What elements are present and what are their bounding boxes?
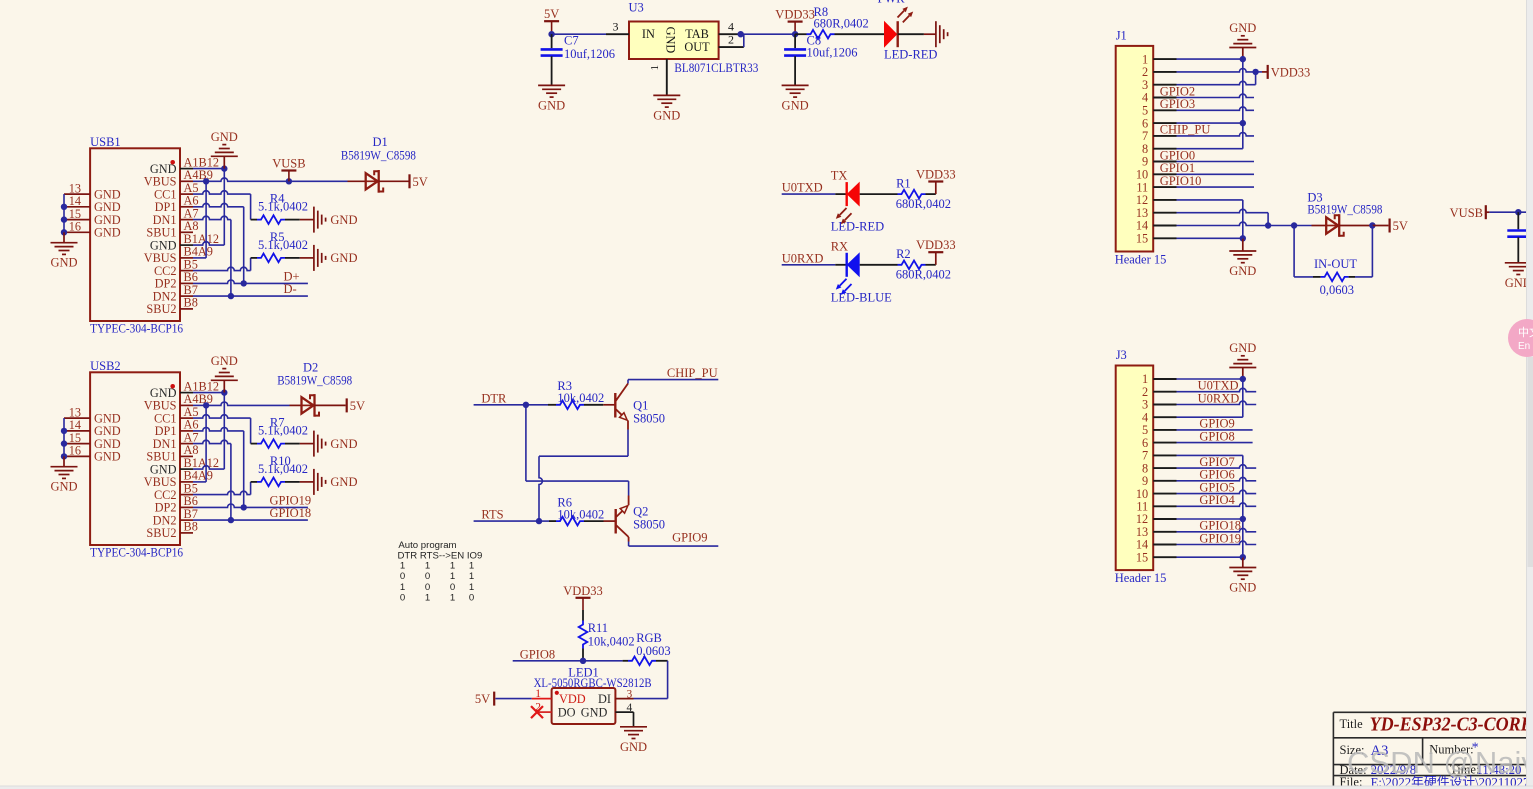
svg-text:0,0603: 0,0603 bbox=[1320, 283, 1354, 297]
svg-text:10uf,1206: 10uf,1206 bbox=[807, 46, 858, 60]
wire J3 pin9 GPIO6 bbox=[1177, 468, 1257, 482]
resistor R11 10k bbox=[579, 610, 635, 661]
svg-text:J3: J3 bbox=[1116, 348, 1127, 362]
diode D2 B5819W_C8598 bbox=[277, 360, 352, 416]
svg-text:5V: 5V bbox=[413, 175, 428, 189]
power port VUSB right bbox=[1450, 205, 1490, 220]
wire J3 pin4 bbox=[1177, 416, 1243, 418]
wire PWR LED to ground bbox=[898, 33, 936, 35]
svg-text:1: 1 bbox=[450, 592, 455, 603]
svg-text:GPIO19: GPIO19 bbox=[1199, 531, 1241, 545]
capacitor at VUSB bbox=[1507, 212, 1529, 263]
wire USB2 B1A12 gnd bbox=[193, 466, 224, 469]
svg-text:C7: C7 bbox=[564, 33, 579, 47]
label Header 15 J1 bbox=[1115, 252, 1167, 266]
svg-text:4: 4 bbox=[627, 702, 633, 714]
svg-text:IN-OUT: IN-OUT bbox=[1314, 257, 1357, 271]
svg-text:GND: GND bbox=[50, 256, 77, 270]
svg-text:BL8071CLBTR33: BL8071CLBTR33 bbox=[674, 61, 758, 75]
pins 1-15 J1 bbox=[1136, 52, 1177, 245]
emission arrows TX bbox=[836, 208, 852, 224]
svg-text:GND: GND bbox=[653, 108, 680, 122]
capacitor C8 bbox=[784, 33, 857, 85]
net label GPIO8 bbox=[520, 647, 555, 661]
diode D1 B5819W_C8598 bbox=[341, 135, 416, 193]
svg-text:Q1: Q1 bbox=[633, 398, 648, 412]
resistor R1 680R bbox=[860, 177, 951, 211]
ground left of USB1 bbox=[50, 243, 77, 270]
svg-text:0: 0 bbox=[450, 582, 455, 593]
svg-text:B5819W_C8598: B5819W_C8598 bbox=[1307, 202, 1382, 216]
wire DN2 USB2 / node GPIO18 bbox=[193, 506, 311, 523]
svg-text:15: 15 bbox=[1136, 232, 1148, 246]
wire J1 pin4 GPIO2 bbox=[1160, 84, 1254, 98]
svg-text:GPIO3: GPIO3 bbox=[1160, 97, 1195, 111]
wire DP2 USB1 / node D+ bbox=[193, 269, 308, 286]
svg-text:Header 15: Header 15 bbox=[1115, 252, 1167, 266]
wire 5V to LED1 bbox=[495, 698, 531, 700]
wire J3 gnd vertical top bbox=[1242, 379, 1244, 417]
svg-text:5V: 5V bbox=[350, 399, 365, 413]
svg-text:GND: GND bbox=[581, 705, 608, 719]
scrollbar bottom bbox=[0, 786, 1533, 789]
diode D3 B5819W_C8598 bbox=[1307, 191, 1382, 237]
note auto-program table bbox=[398, 540, 483, 603]
power port 5V at D1 bbox=[410, 174, 428, 189]
svg-text:S8050: S8050 bbox=[633, 517, 665, 531]
svg-text:GPIO18: GPIO18 bbox=[270, 506, 312, 520]
svg-text:GND: GND bbox=[330, 213, 357, 227]
junction node U3 output bbox=[738, 31, 744, 37]
ground at R5 bbox=[314, 245, 358, 271]
wire Q2 collector to GPIO9 bbox=[629, 542, 719, 547]
wire VBUS to D1 USB1 bbox=[206, 178, 366, 185]
svg-text:GND: GND bbox=[1229, 341, 1256, 355]
junction gnd top USB2 bbox=[221, 389, 227, 395]
emission arrows RX bbox=[836, 279, 852, 295]
svg-text:VDD33: VDD33 bbox=[1271, 66, 1311, 80]
svg-text:GND: GND bbox=[1229, 581, 1256, 595]
svg-text:1: 1 bbox=[649, 65, 661, 71]
ground left of USB2 bbox=[50, 467, 77, 494]
ground above J3 bbox=[1229, 341, 1256, 379]
wire J1 pin5 GPIO3 bbox=[1160, 97, 1254, 111]
wire CC2 USB2 bbox=[193, 482, 251, 495]
LED1 pin 2 DO no-connect bbox=[531, 701, 552, 718]
svg-text:0: 0 bbox=[425, 582, 430, 593]
svg-text:DTR: DTR bbox=[481, 391, 507, 405]
svg-text:D2: D2 bbox=[303, 360, 318, 374]
pins 1-15 J3 bbox=[1136, 372, 1177, 564]
svg-text:R1: R1 bbox=[896, 177, 911, 191]
svg-text:GND: GND bbox=[330, 251, 357, 265]
wire U0TXD bbox=[782, 193, 847, 195]
header J1 Header 15 bbox=[1116, 28, 1154, 251]
wire USB2 VBUS bbox=[193, 402, 209, 482]
svg-text:0: 0 bbox=[400, 571, 405, 582]
wire J3 pin10 GPIO5 bbox=[1177, 480, 1257, 494]
wire J3 pin8 GPIO7 bbox=[1177, 455, 1257, 469]
LED1 pin 1 VDD bbox=[532, 688, 552, 700]
wire J1 pin3 bbox=[1177, 72, 1256, 85]
power port VDD33 at J1 bbox=[1256, 65, 1311, 80]
svg-text:TX: TX bbox=[831, 169, 848, 183]
pink translate button bbox=[1508, 319, 1533, 357]
svg-text:VDD33: VDD33 bbox=[775, 8, 815, 22]
wire D3 to 5V bbox=[1339, 222, 1388, 228]
svg-text:GND: GND bbox=[1229, 264, 1256, 278]
svg-text:1: 1 bbox=[535, 688, 541, 700]
svg-text:0: 0 bbox=[400, 592, 405, 603]
wire CC1 USB1 bbox=[193, 191, 251, 220]
resistor RGB 0R bbox=[623, 631, 671, 665]
net label RX bbox=[831, 239, 848, 253]
net label CHIP_PU bbox=[667, 366, 718, 380]
svg-text:1: 1 bbox=[450, 571, 455, 582]
header J3 Header 15 bbox=[1116, 348, 1154, 570]
svg-text:VUSB: VUSB bbox=[272, 157, 305, 171]
resistor IN-OUT 0R bbox=[1313, 257, 1357, 297]
pins 13-16 USB2 bbox=[64, 405, 121, 463]
resistor R5 5.1k bbox=[251, 230, 314, 262]
wire DP1 USB2 bbox=[193, 428, 244, 508]
LED PWR red bbox=[884, 7, 937, 62]
svg-text:CSDN @Naivete: CSDN @Naivete bbox=[1347, 745, 1533, 780]
svg-text:5.1k,0402: 5.1k,0402 bbox=[258, 238, 308, 252]
wire gnd vertical USB2 bbox=[223, 393, 225, 470]
svg-text:1: 1 bbox=[425, 560, 430, 571]
wire J1 pin14 to D3 bbox=[1177, 222, 1327, 229]
power port 5V at D3 bbox=[1390, 219, 1408, 234]
wire DN1 USB1 bbox=[193, 216, 231, 296]
wire J1 pin9 GPIO0 bbox=[1160, 148, 1254, 162]
wire DP1 USB1 bbox=[193, 203, 244, 283]
svg-text:YD-ESP32-C3-CORE: YD-ESP32-C3-CORE bbox=[1370, 714, 1533, 736]
ground below LED1 bbox=[620, 727, 647, 754]
svg-text:VDD33: VDD33 bbox=[916, 168, 956, 182]
wire left gnd bus USB2 bbox=[61, 418, 67, 467]
svg-text:10k,0402: 10k,0402 bbox=[557, 391, 604, 405]
ground below VUSB cap bbox=[1505, 263, 1532, 290]
svg-text:1: 1 bbox=[450, 560, 455, 571]
svg-text:1: 1 bbox=[469, 582, 474, 593]
svg-text:TYPEC-304-BCP16: TYPEC-304-BCP16 bbox=[90, 546, 183, 560]
svg-text:J1: J1 bbox=[1116, 28, 1127, 42]
wire VBUS to D2 USB2 bbox=[206, 402, 301, 405]
ground above USB2 bbox=[211, 354, 238, 393]
power port 5V at D2 bbox=[347, 398, 365, 413]
svg-text:GND: GND bbox=[330, 475, 357, 489]
power port VDD33 at R2 bbox=[916, 238, 956, 265]
wire J1 pin1 bbox=[1177, 56, 1247, 62]
ground above J1 bbox=[1229, 21, 1256, 59]
svg-text:5.1k,0402: 5.1k,0402 bbox=[258, 200, 308, 214]
net label PWR bbox=[878, 0, 906, 6]
svg-text:GND: GND bbox=[50, 480, 77, 494]
wire DP2 USB2 / node GPIO19 bbox=[193, 493, 311, 510]
wire J1 pin7 CHIP_PU bbox=[1160, 123, 1254, 137]
net label U0TXD bbox=[782, 181, 823, 195]
wire Q1 emitter to RTS bbox=[539, 430, 628, 522]
date row bbox=[1340, 763, 1522, 777]
svg-text:5V: 5V bbox=[475, 692, 490, 706]
svg-text:0: 0 bbox=[425, 571, 430, 582]
wire J1 pin10 GPIO1 bbox=[1160, 161, 1254, 175]
wire DN1 USB2 bbox=[193, 440, 231, 520]
wire J3 pin14 GPIO19 bbox=[1177, 531, 1257, 545]
svg-text:GND: GND bbox=[538, 98, 565, 112]
ground below J1 bbox=[1229, 251, 1256, 278]
svg-text:GPIO8: GPIO8 bbox=[1199, 429, 1234, 443]
wire pin2 up to pin4 bbox=[743, 34, 745, 47]
title block frame bbox=[1333, 712, 1533, 789]
resistor R3 10k bbox=[548, 379, 615, 409]
wire J1 pin15 bbox=[1177, 237, 1243, 239]
svg-text:1: 1 bbox=[400, 582, 405, 593]
svg-text:XL-5050RGBC-WS2812B: XL-5050RGBC-WS2812B bbox=[534, 676, 652, 690]
svg-text:U0RXD: U0RXD bbox=[782, 251, 824, 265]
svg-text:USB2: USB2 bbox=[90, 359, 121, 373]
svg-text:5.1k,0402: 5.1k,0402 bbox=[258, 424, 308, 438]
svg-text:2: 2 bbox=[728, 33, 734, 47]
LED TX LED-RED bbox=[831, 182, 884, 234]
resistor R4 5.1k bbox=[251, 192, 314, 224]
svg-text:680R,0402: 680R,0402 bbox=[896, 197, 951, 211]
svg-text:SBU2: SBU2 bbox=[146, 302, 176, 316]
svg-text:GND: GND bbox=[782, 98, 809, 112]
svg-text:GND: GND bbox=[94, 226, 121, 240]
wire J3 pin1 bbox=[1177, 376, 1247, 382]
ground at R10 bbox=[314, 469, 358, 495]
transistor Q1 S8050 bbox=[615, 384, 665, 430]
wire J3 pin15 bbox=[1177, 556, 1243, 558]
svg-text:5V: 5V bbox=[1393, 219, 1408, 233]
svg-text:10uf,1206: 10uf,1206 bbox=[564, 47, 615, 61]
wire left gnd bus USB1 bbox=[61, 194, 67, 243]
LED1 pin 4 GND bbox=[615, 702, 633, 727]
svg-text:10k,0402: 10k,0402 bbox=[588, 634, 635, 648]
usb connector USB1 TYPEC-304-BCP16 bbox=[90, 135, 183, 336]
ground right of PWR LED bbox=[936, 21, 948, 47]
wire J3 pin12 bbox=[1177, 518, 1243, 520]
ground at R4 bbox=[314, 207, 358, 233]
wire J1 pin2 VDD33 bbox=[1177, 69, 1259, 76]
svg-text:5V: 5V bbox=[544, 7, 559, 21]
net label DTR bbox=[481, 391, 507, 405]
wire RTS bbox=[474, 518, 549, 524]
power port 5V at LED1 bbox=[475, 692, 494, 707]
wire J3 pin5 GPIO9 bbox=[1177, 417, 1253, 431]
svg-text:680R,0402: 680R,0402 bbox=[814, 16, 869, 30]
junction gnd top USB1 bbox=[221, 165, 227, 171]
svg-text:U0RXD: U0RXD bbox=[1198, 391, 1240, 405]
svg-text:Auto program: Auto program bbox=[398, 540, 456, 551]
power port 5V bbox=[544, 7, 559, 34]
capacitor C7 bbox=[541, 33, 615, 85]
resistor R2 680R bbox=[860, 247, 951, 281]
svg-text:CHIP_PU: CHIP_PU bbox=[667, 366, 718, 380]
svg-text:16: 16 bbox=[69, 444, 81, 458]
resistor R10 5.1k bbox=[251, 454, 314, 486]
wire J3 pin6 GPIO8 bbox=[1177, 429, 1253, 443]
wire USB2 A1B12 gnd bbox=[193, 392, 224, 394]
voltage regulator U3 BL8071CLBTR33 bbox=[629, 1, 759, 76]
watermark CSDN bbox=[1347, 745, 1533, 780]
wire J3 pin2 U0TXD bbox=[1177, 379, 1257, 393]
svg-text:OUT: OUT bbox=[684, 40, 710, 54]
svg-text:GND: GND bbox=[330, 437, 357, 451]
size row bbox=[1340, 741, 1479, 760]
wire USB1 A1B12 gnd bbox=[193, 168, 224, 170]
resistor R6 10k bbox=[549, 495, 616, 525]
net label RTS bbox=[481, 508, 503, 522]
wire DTR to Q2 collector bbox=[526, 405, 629, 496]
wire D2 to 5V bbox=[315, 404, 346, 406]
wire DN2 USB1 / node D- bbox=[193, 282, 308, 299]
wire J1 pin11 GPIO10 bbox=[1160, 174, 1254, 188]
svg-text:中文: 中文 bbox=[1518, 325, 1533, 339]
rgb led LED1 XL-5050RGBC-WS2812B bbox=[534, 665, 652, 724]
wire 5V to U3 pin3 bbox=[552, 33, 606, 35]
power port VDD33 top bbox=[775, 8, 815, 35]
junction node VDD33/C8 bbox=[792, 31, 798, 37]
ground below C8 bbox=[782, 85, 809, 112]
svg-text:S8050: S8050 bbox=[633, 411, 665, 425]
wire CHIP_PU bbox=[628, 380, 718, 384]
svg-text:USB1: USB1 bbox=[90, 135, 121, 149]
wire CC2 USB1 bbox=[193, 258, 251, 271]
wire VUSB right bbox=[1489, 209, 1533, 215]
svg-text:DO: DO bbox=[558, 705, 576, 719]
net label TX bbox=[831, 169, 848, 183]
svg-text:GPIO8: GPIO8 bbox=[520, 647, 555, 661]
pins right side USB2 bbox=[144, 379, 219, 540]
svg-text:B8: B8 bbox=[184, 520, 198, 534]
wire USB1 B1A12 gnd bbox=[193, 242, 224, 245]
svg-text:LED-BLUE: LED-BLUE bbox=[831, 290, 892, 304]
svg-text:VUSB: VUSB bbox=[1450, 206, 1483, 220]
svg-text:3: 3 bbox=[627, 688, 633, 700]
svg-text:U0TXD: U0TXD bbox=[782, 181, 823, 195]
wire J1 pin8 bbox=[1177, 148, 1243, 150]
svg-text:GND: GND bbox=[94, 450, 121, 464]
title text bbox=[1340, 714, 1533, 736]
label Header 15 J3 bbox=[1115, 571, 1167, 585]
U3 pin 1 (GND) bbox=[649, 59, 667, 95]
svg-text:GND: GND bbox=[620, 740, 647, 754]
wire DTR bbox=[474, 402, 548, 408]
wire J3 pin11 GPIO4 bbox=[1177, 493, 1257, 507]
svg-text:GND: GND bbox=[211, 354, 238, 368]
U3 pin 2 (OUT) bbox=[719, 33, 744, 48]
resistor R8 680R bbox=[795, 5, 884, 39]
svg-text:R2: R2 bbox=[896, 247, 911, 261]
wire CC1 USB2 bbox=[193, 415, 251, 444]
svg-text:PWR: PWR bbox=[878, 0, 906, 6]
wire J1 pin12 bbox=[1177, 199, 1243, 201]
wire gnd vertical USB1 bbox=[223, 169, 225, 246]
wire U3 out to VDD33 bbox=[741, 33, 795, 35]
svg-text:B5819W_C8598: B5819W_C8598 bbox=[341, 148, 416, 162]
U3 pin 3 (IN) bbox=[606, 20, 629, 35]
svg-text:5.1k,0402: 5.1k,0402 bbox=[258, 462, 308, 476]
svg-text:VDD33: VDD33 bbox=[563, 584, 603, 598]
svg-text:U3: U3 bbox=[629, 1, 644, 15]
svg-text:VDD: VDD bbox=[559, 692, 586, 706]
svg-text:16: 16 bbox=[69, 220, 81, 234]
wire J3 pin7 bbox=[1177, 454, 1243, 456]
svg-text:0,0603: 0,0603 bbox=[636, 644, 670, 658]
wire J1 pin6 bbox=[1177, 120, 1247, 126]
wire J3 pin3 U0RXD bbox=[1177, 391, 1257, 405]
ground below C7 bbox=[538, 85, 565, 112]
svg-text:4: 4 bbox=[728, 20, 734, 34]
U3 pin 4 (TAB) bbox=[719, 20, 741, 35]
svg-text:GND: GND bbox=[211, 130, 238, 144]
wire U0RXD bbox=[782, 264, 847, 266]
wire J1 gnd vertical bottom bbox=[1240, 200, 1246, 251]
svg-text:GND: GND bbox=[1229, 21, 1256, 35]
power port VDD33 at R1 bbox=[916, 168, 956, 195]
svg-text:1: 1 bbox=[425, 592, 430, 603]
wire D1 to 5V bbox=[379, 180, 409, 182]
net label U0RXD bbox=[782, 251, 824, 265]
wire USB1 VBUS bbox=[193, 178, 209, 258]
svg-text:VDD33: VDD33 bbox=[916, 238, 956, 252]
wire J1 pin13 bbox=[1177, 209, 1269, 225]
svg-text:D1: D1 bbox=[373, 135, 388, 149]
svg-text:SBU2: SBU2 bbox=[146, 526, 176, 540]
svg-text:GPIO4: GPIO4 bbox=[1199, 493, 1235, 507]
wire J3 gnd vertical bottom bbox=[1240, 455, 1246, 567]
svg-text:680R,0402: 680R,0402 bbox=[896, 268, 951, 282]
wire J1 gnd vertical top bbox=[1242, 59, 1244, 149]
wire RGB to DI bbox=[634, 661, 668, 699]
ground below J3 bbox=[1229, 568, 1256, 595]
svg-text:B8: B8 bbox=[184, 296, 198, 310]
power port VUSB bbox=[272, 157, 305, 182]
junction node 5V/C7 bbox=[548, 31, 554, 37]
svg-text:GPIO10: GPIO10 bbox=[1160, 174, 1202, 188]
pins right side USB1 bbox=[144, 155, 219, 316]
svg-text:1: 1 bbox=[400, 560, 405, 571]
ground at R7 bbox=[314, 431, 358, 457]
svg-text:GND: GND bbox=[664, 27, 678, 54]
file row bbox=[1340, 775, 1533, 789]
svg-text:Header 15: Header 15 bbox=[1115, 571, 1167, 585]
wire J3 pin13 GPIO18 bbox=[1177, 519, 1257, 533]
resistor R7 5.1k bbox=[251, 416, 314, 448]
svg-text:D-: D- bbox=[284, 282, 297, 296]
svg-text:RX: RX bbox=[831, 239, 848, 253]
svg-text:15: 15 bbox=[1136, 550, 1148, 564]
svg-text:Q2: Q2 bbox=[633, 504, 648, 518]
svg-text:IN: IN bbox=[642, 27, 655, 41]
net label GPIO9 at Q2 bbox=[672, 530, 707, 544]
svg-text:CHIP_PU: CHIP_PU bbox=[1160, 123, 1211, 137]
svg-text:10k,0402: 10k,0402 bbox=[557, 507, 604, 521]
svg-text:1: 1 bbox=[469, 571, 474, 582]
power port VDD33 at R11 bbox=[563, 584, 603, 610]
LED RX LED-BLUE bbox=[831, 252, 892, 304]
svg-text:DI: DI bbox=[598, 692, 611, 706]
svg-text:R11: R11 bbox=[588, 621, 608, 635]
svg-text:TYPEC-304-BCP16: TYPEC-304-BCP16 bbox=[90, 322, 183, 336]
svg-text:En: En bbox=[1518, 341, 1530, 352]
svg-text:LED-RED: LED-RED bbox=[884, 48, 937, 62]
svg-text:Title: Title bbox=[1340, 717, 1364, 731]
LED1 pin 3 DI bbox=[615, 688, 633, 700]
